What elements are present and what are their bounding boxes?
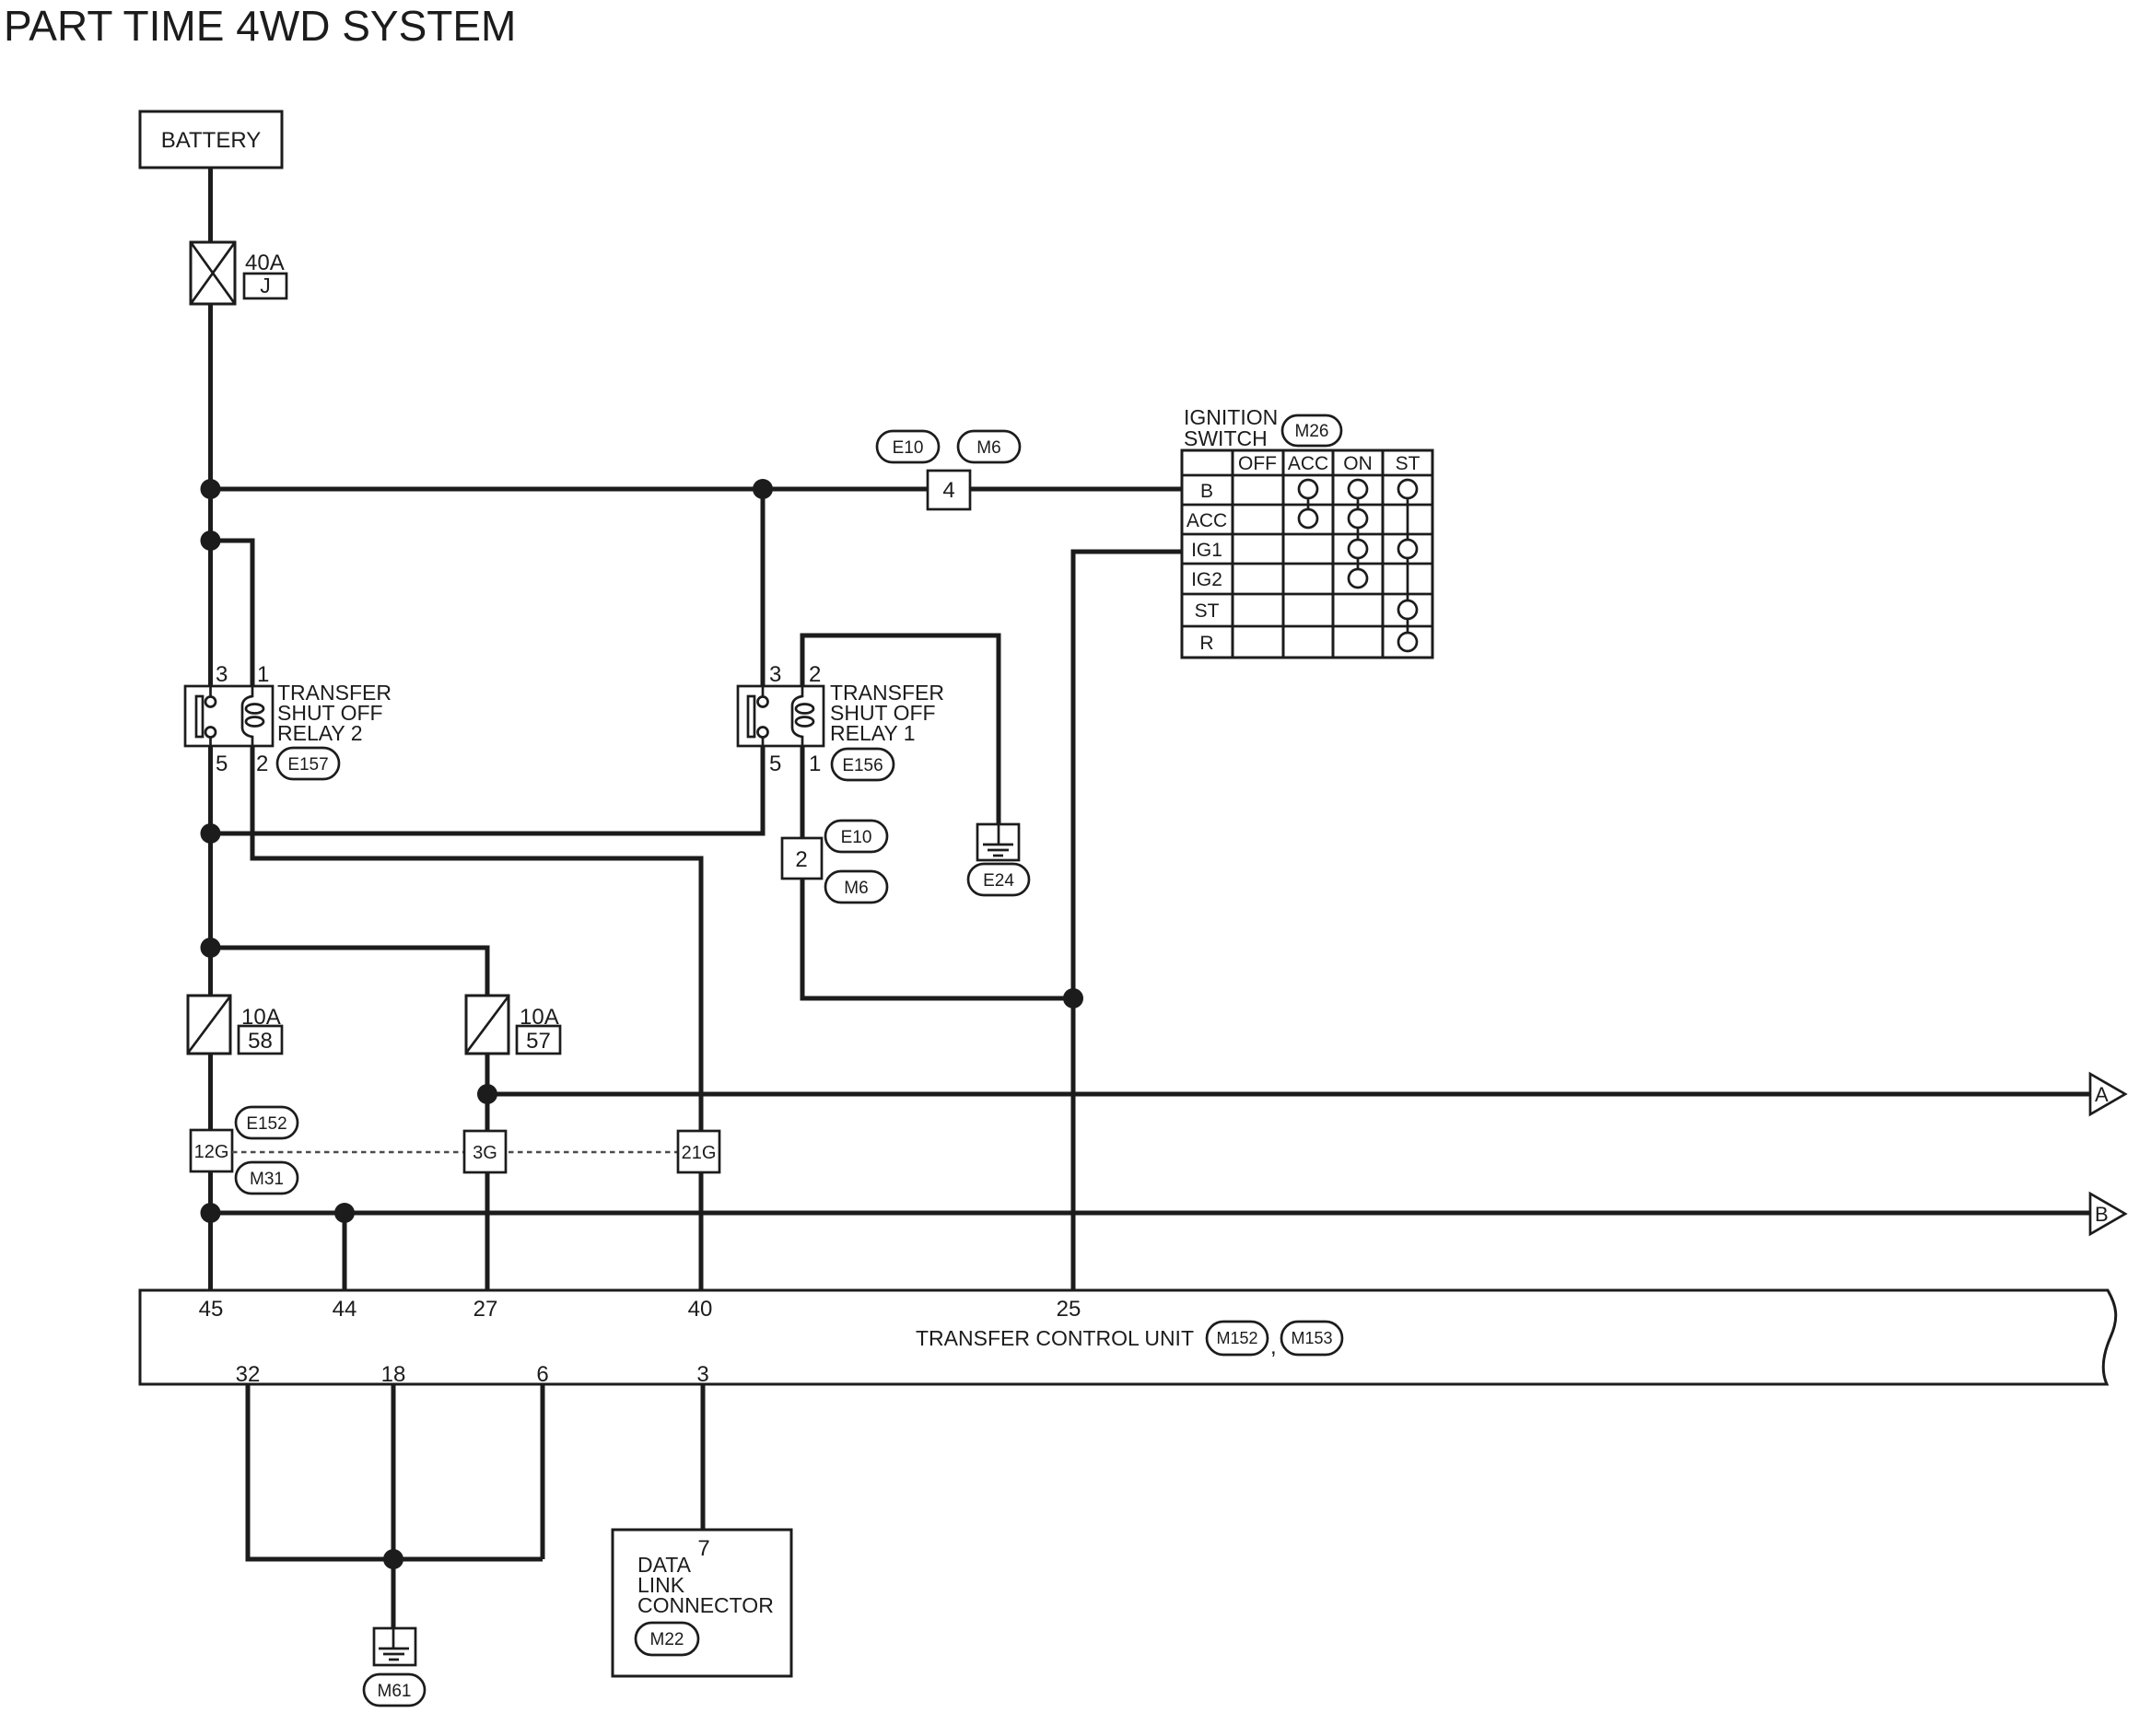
svg-text:7: 7 [697,1536,709,1561]
ground E24 [977,824,1019,860]
wire 3G to TCU pin 27 [485,1172,490,1290]
svg-text:M152: M152 [1216,1329,1257,1347]
node junction relay 1 feed [753,479,773,499]
svg-text:E10: E10 [841,828,872,847]
wire relay 2 pin 5 down left rail [208,746,213,996]
svg-text:M153: M153 [1291,1329,1332,1347]
connector M153 [1281,1322,1342,1355]
svg-text:TRANSFER CONTROL UNIT: TRANSFER CONTROL UNIT [916,1326,1194,1350]
svg-text:25: 25 [1057,1297,1081,1322]
svg-text:OFF: OFF [1238,453,1277,474]
connector E157 [277,748,339,779]
connector M6 [825,871,887,903]
wire 21G to TCU pin 40 [699,1172,704,1290]
svg-text:44: 44 [333,1297,357,1322]
svg-text:E156: E156 [842,756,883,775]
connector E24 [968,864,1029,895]
svg-text:J: J [260,274,271,297]
wire relay 1 pin 1 down to IG1 rail [802,746,1073,998]
node junction fuse feed [201,938,221,958]
svg-text:3: 3 [769,662,781,687]
wire 12G to TCU pin 45 [208,1171,213,1290]
node junction grounds [383,1549,403,1569]
wire B line [211,1211,2091,1216]
svg-text:E152: E152 [246,1114,286,1134]
connector E152 [236,1107,298,1138]
svg-text:40: 40 [688,1297,713,1322]
svg-text:SWITCH: SWITCH [1184,426,1268,450]
connector 21G [678,1131,719,1172]
node junction B line left [201,1203,221,1223]
connector E10 [825,821,887,852]
data link connector box [613,1530,791,1676]
svg-text:5: 5 [769,751,781,776]
connector 2 between E10 and M6 [782,838,822,879]
fuse 10A 57 [466,996,509,1054]
connector M26 [1282,415,1341,446]
connector M152 [1207,1322,1268,1355]
svg-text:2: 2 [809,662,821,687]
svg-text:ACC: ACC [1288,453,1328,474]
connector M22 [636,1623,698,1655]
fusible link 40A J [191,242,235,304]
wire A line [487,1092,2090,1097]
svg-text:1: 1 [809,751,821,776]
svg-text:B: B [2095,1203,2109,1226]
switch contacts ON column [1349,480,1367,588]
wire battery to fusible link J [208,168,213,243]
svg-text:58: 58 [248,1029,273,1054]
svg-text:E10: E10 [893,438,924,458]
svg-text:E157: E157 [287,755,328,775]
ground M61 [374,1628,415,1665]
svg-text:5: 5 [216,751,228,776]
wire left rail to fuse 57 [211,948,488,996]
svg-text:27: 27 [473,1297,498,1322]
wire bus B row (battery feed to ignition switch) [211,487,1183,492]
svg-text:2: 2 [795,847,807,872]
connector 12G [191,1130,232,1171]
svg-text:ST: ST [1396,453,1420,474]
svg-text:BATTERY: BATTERY [161,128,261,153]
wire relay 1 pin 5 to left rail junction [211,746,764,833]
wire B line branch to TCU pin 44 [343,1213,347,1290]
connector 4 between E10 and M6 [928,471,970,509]
svg-text:M6: M6 [844,879,868,898]
switch contacts ST column [1398,480,1417,651]
wire A junction to 3G [485,1094,490,1131]
svg-text:ON: ON [1343,453,1373,474]
svg-text:CONNECTOR: CONNECTOR [637,1593,774,1617]
svg-text:B: B [1200,481,1213,502]
svg-text:RELAY 2: RELAY 2 [277,721,362,745]
connector M31 [236,1162,298,1194]
svg-text:1: 1 [257,662,269,687]
ignition switch table [1182,450,1432,658]
svg-text:,: , [1270,1334,1277,1359]
svg-text:45: 45 [199,1297,224,1322]
wire TCU pin 18 to ground junction [392,1384,396,1628]
node junction relay 2 coil feed [201,530,221,551]
connector E156 [832,749,894,780]
svg-text:12G: 12G [194,1142,229,1162]
svg-text:ACC: ACC [1187,510,1227,531]
wire IG1 row to ignition switch [1073,552,1182,1290]
wire bus to relay 1 pin 3 [761,489,766,686]
svg-text:4: 4 [942,478,954,503]
transfer control unit box [140,1290,2116,1384]
wire fuse 57 to A line [485,1054,490,1094]
svg-text:3: 3 [696,1362,708,1387]
wire TCU pin 6 to ground junction [541,1384,545,1559]
node junction IG1 rail [1063,988,1083,1008]
wire TCU pin 32 to ground junction [248,1384,543,1559]
svg-text:M6: M6 [976,438,1000,458]
wire TCU pin 3 to data link connector [701,1384,706,1530]
svg-text:ST: ST [1195,600,1220,622]
svg-text:A: A [2095,1083,2109,1106]
transfer shut off relay 2 [185,686,273,746]
svg-text:18: 18 [381,1362,406,1387]
svg-text:6: 6 [536,1362,548,1387]
node junction A line [477,1084,497,1104]
node junction B line pin 44 [334,1203,355,1223]
svg-text:40A: 40A [245,250,285,275]
svg-text:IG2: IG2 [1191,569,1222,590]
svg-text:RELAY 1: RELAY 1 [830,721,915,745]
svg-text:E24: E24 [983,871,1014,891]
svg-text:PART TIME 4WD SYSTEM: PART TIME 4WD SYSTEM [4,2,516,50]
arrow B [2090,1194,2125,1234]
svg-text:3G: 3G [473,1143,497,1163]
switch contacts ACC column [1299,480,1317,528]
svg-text:57: 57 [526,1029,551,1054]
fuse 10A 58 [188,996,230,1054]
svg-text:32: 32 [236,1362,261,1387]
connector 3G [464,1131,506,1172]
battery [140,111,282,168]
node junction battery bus [201,479,221,499]
transfer shut off relay 1 [738,686,824,746]
svg-text:R: R [1199,633,1213,654]
connector M6 [958,431,1020,462]
wire relay 2 pin 2 to 21G [252,746,701,1131]
svg-text:M22: M22 [650,1630,684,1649]
arrow A [2090,1074,2125,1114]
node junction relay pins 5 [201,823,221,844]
svg-text:2: 2 [256,751,268,776]
connector E10 [877,431,939,462]
svg-text:M26: M26 [1295,422,1329,441]
svg-text:M31: M31 [250,1170,284,1189]
wire fuse 58 to 12G [208,1054,213,1130]
connector M61 [364,1674,425,1706]
svg-text:IG1: IG1 [1191,540,1222,561]
dashed harness line [232,1151,678,1154]
svg-text:3: 3 [216,662,228,687]
svg-text:M61: M61 [378,1682,412,1701]
wire branch to relay 2 coil pin 1 [211,541,253,686]
wire fusible link J down to relay 2 pin 3 [208,304,213,686]
wire relay 1 pin 2 to ground E24 [802,635,999,825]
svg-text:21G: 21G [682,1143,717,1163]
